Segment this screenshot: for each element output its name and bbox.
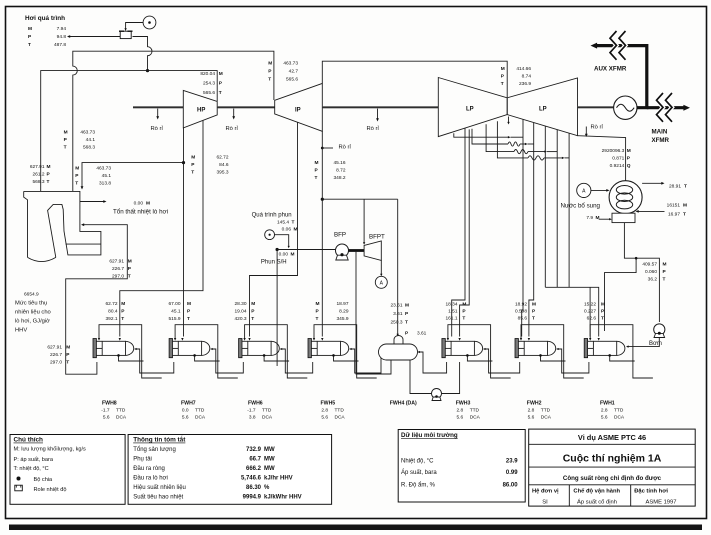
svg-text:45.1: 45.1 bbox=[102, 173, 112, 179]
shaft left stub bbox=[133, 106, 183, 108]
svg-text:2.8: 2.8 bbox=[528, 407, 535, 413]
right LP tap to FWH2 second bbox=[529, 123, 534, 337]
feedwater heater FWH6 bbox=[239, 339, 280, 358]
svg-text:463.73: 463.73 bbox=[96, 166, 111, 172]
boiler heat loss arrow bbox=[80, 201, 105, 203]
svg-text:TTD: TTD bbox=[470, 407, 480, 413]
condenser hotwell box bbox=[612, 213, 635, 222]
BFP coupling shaft bbox=[349, 249, 365, 252]
svg-text:395.3: 395.3 bbox=[216, 170, 228, 176]
svg-text:Hiệu suất nhiên liệu: Hiệu suất nhiên liệu bbox=[133, 485, 186, 491]
svg-text:392.1: 392.1 bbox=[105, 316, 117, 322]
svg-text:820.04: 820.04 bbox=[200, 71, 215, 77]
svg-text:0.060: 0.060 bbox=[645, 269, 657, 275]
drain bracket FWH7 bbox=[175, 325, 238, 378]
deaerator dome bbox=[394, 336, 403, 345]
svg-text:Rò rỉ: Rò rỉ bbox=[339, 143, 352, 150]
thick bus generator to transformers bbox=[596, 46, 647, 108]
main steam line boiler to HP bbox=[41, 71, 218, 192]
svg-text:DCA: DCA bbox=[116, 414, 127, 420]
legend splitter symbol bbox=[17, 477, 21, 481]
condenser cooling water inlet arrow bbox=[638, 210, 665, 212]
values HP inlet bbox=[200, 71, 222, 96]
instrument circle A below BFPT bbox=[375, 276, 387, 288]
condenser cooling water outlet arrow bbox=[642, 182, 662, 184]
condenser coil bbox=[616, 186, 632, 195]
label FWH7 bbox=[181, 400, 206, 420]
svg-text:T: T bbox=[663, 277, 666, 283]
svg-text:28.30: 28.30 bbox=[234, 301, 246, 307]
svg-text:568.3: 568.3 bbox=[32, 179, 44, 185]
svg-text:7.9: 7.9 bbox=[586, 215, 593, 221]
HP turbine bbox=[183, 90, 217, 128]
svg-text:lò hơi, GJ/giờ: lò hơi, GJ/giờ bbox=[15, 319, 50, 325]
svg-text:T: T bbox=[64, 145, 67, 151]
svg-text:M: M bbox=[663, 262, 667, 268]
drain bracket FWH8 bbox=[99, 325, 162, 378]
svg-text:5.6: 5.6 bbox=[601, 414, 608, 420]
svg-text:T: T bbox=[683, 211, 686, 217]
condensate branch to FWH1 shell bbox=[605, 258, 637, 331]
svg-text:M: M bbox=[121, 301, 125, 307]
svg-text:Role nhiệt độ: Role nhiệt độ bbox=[34, 487, 67, 493]
svg-text:Hệ đơn vị: Hệ đơn vị bbox=[532, 489, 559, 495]
svg-text:5.6: 5.6 bbox=[103, 414, 110, 420]
wire IP mid extraction to FWH6 bbox=[250, 122, 298, 336]
svg-text:-1.7: -1.7 bbox=[101, 407, 110, 413]
values main steam at boiler bbox=[30, 164, 51, 185]
label Muc tieu thu nhien lieu bbox=[15, 301, 51, 334]
svg-text:T: T bbox=[75, 181, 78, 187]
svg-text:Nước bổ sung: Nước bổ sung bbox=[561, 202, 601, 209]
svg-text:Vi dụ ASME PTC 46: Vi dụ ASME PTC 46 bbox=[578, 433, 646, 442]
svg-text:Áp suất cổ định: Áp suất cổ định bbox=[577, 498, 617, 505]
node cold reheat tap bbox=[182, 161, 185, 164]
wire valve down to main steam line with hop bbox=[133, 37, 153, 71]
svg-text:SI: SI bbox=[542, 499, 548, 505]
svg-text:16.97: 16.97 bbox=[668, 211, 680, 217]
svg-text:Rò rỉ: Rò rỉ bbox=[591, 124, 604, 131]
wire circle to valve bbox=[126, 23, 144, 31]
svg-text:487.8: 487.8 bbox=[54, 42, 66, 48]
main transformer winding symbol bbox=[657, 93, 664, 122]
svg-text:DCA: DCA bbox=[614, 414, 625, 420]
feedwater heater FWH8 bbox=[93, 339, 134, 358]
svg-text:M: M bbox=[191, 155, 195, 161]
svg-text:565.6: 565.6 bbox=[286, 77, 298, 83]
svg-text:Phụ tải: Phụ tải bbox=[133, 456, 152, 462]
svg-text:Mức tiêu thụ: Mức tiêu thụ bbox=[15, 301, 47, 307]
svg-text:3.61: 3.61 bbox=[393, 311, 403, 317]
svg-text:161.1: 161.1 bbox=[445, 316, 457, 322]
hot reheat line boiler to IP with hop bbox=[73, 51, 274, 191]
svg-text:Công suất ròng chỉ định đo đượ: Công suất ròng chỉ định đo được bbox=[563, 475, 662, 482]
svg-text:5.6: 5.6 bbox=[321, 414, 328, 420]
values FWH7 extraction bbox=[168, 301, 191, 322]
svg-text:T: T bbox=[684, 183, 687, 189]
drain outlet FWH3 bbox=[467, 355, 492, 361]
svg-text:18.92: 18.92 bbox=[515, 302, 527, 308]
svg-text:%: % bbox=[264, 485, 270, 491]
svg-text:Quá trình phun: Quá trình phun bbox=[252, 213, 292, 219]
LP extraction drop B with loop seal bbox=[472, 129, 508, 144]
svg-text:0.871: 0.871 bbox=[612, 156, 624, 162]
svg-text:8.74: 8.74 bbox=[522, 74, 532, 80]
ambient box Du lieu moi truong bbox=[398, 430, 525, 503]
svg-text:42.7: 42.7 bbox=[289, 69, 299, 75]
svg-text:0.0: 0.0 bbox=[182, 407, 189, 413]
svg-text:TTD: TTD bbox=[116, 407, 126, 413]
boiler bottom arc bbox=[28, 257, 56, 261]
svg-text:DCA: DCA bbox=[195, 414, 206, 420]
svg-text:297.0: 297.0 bbox=[50, 360, 62, 366]
steam inlet arrows FWH1 bbox=[589, 338, 591, 341]
svg-text:348.2: 348.2 bbox=[333, 175, 345, 181]
svg-text:BFP: BFP bbox=[334, 231, 346, 238]
summary box Thong tin tom tat bbox=[128, 435, 332, 505]
svg-text:M: M bbox=[47, 164, 51, 170]
svg-text:3.61: 3.61 bbox=[417, 330, 427, 336]
process steam arrow line to left bbox=[69, 36, 120, 38]
svg-text:T: T bbox=[501, 81, 504, 87]
svg-text:IP: IP bbox=[295, 108, 301, 114]
svg-text:15.22: 15.22 bbox=[584, 302, 596, 308]
label FWH2 bbox=[527, 400, 552, 420]
svg-text:P: áp suất, bara: P: áp suất, bara bbox=[14, 457, 54, 463]
svg-text:T: nhiệt độ, °C: T: nhiệt độ, °C bbox=[14, 466, 49, 472]
svg-text:Áp suất, bara: Áp suất, bara bbox=[401, 469, 437, 476]
generator G1 bbox=[614, 96, 637, 119]
svg-text:T: T bbox=[66, 360, 69, 366]
svg-text:kJ/hr HHV: kJ/hr HHV bbox=[264, 475, 293, 481]
svg-text:7.94: 7.94 bbox=[57, 26, 67, 32]
svg-text:M: M bbox=[66, 345, 70, 351]
svg-text:515.9: 515.9 bbox=[168, 316, 180, 322]
values FWH5 extraction bbox=[316, 301, 349, 322]
wire IP exhaust down to FWH5 bbox=[321, 131, 323, 336]
svg-text:Bộ chia: Bộ chia bbox=[34, 477, 54, 483]
values FWH1 extraction bbox=[584, 302, 605, 322]
svg-text:T: T bbox=[47, 179, 50, 185]
svg-text:261.2: 261.2 bbox=[32, 172, 44, 178]
drain bracket FWH5 bbox=[314, 325, 377, 378]
svg-text:DCA: DCA bbox=[262, 414, 273, 420]
feedwater link FWH5 to FWH6 bbox=[280, 349, 312, 373]
deaerator drain to pump bbox=[410, 360, 431, 394]
main transformer arrow bbox=[683, 105, 690, 111]
svg-text:T: T bbox=[191, 170, 194, 176]
feedwater link DA to FWH5 bbox=[350, 349, 381, 373]
svg-text:Tổn thất nhiệt lò hơi: Tổn thất nhiệt lò hơi bbox=[113, 209, 168, 216]
svg-text:62.72: 62.72 bbox=[216, 155, 228, 161]
feedwater heater FWH5 bbox=[308, 339, 349, 358]
svg-text:ASME 1997: ASME 1997 bbox=[646, 499, 677, 505]
process steam M P T values bbox=[28, 26, 66, 48]
feedwater heater FWH7 bbox=[169, 339, 210, 358]
svg-text:M: M bbox=[128, 259, 132, 265]
values HP extraction bbox=[191, 155, 229, 176]
svg-text:Đầu ra lò hơi: Đầu ra lò hơi bbox=[133, 475, 168, 481]
svg-text:86.00: 86.00 bbox=[503, 482, 519, 488]
condensate pump Bom bbox=[654, 324, 665, 335]
svg-text:8.29: 8.29 bbox=[339, 309, 349, 315]
svg-text:M: M bbox=[683, 203, 687, 209]
condenser C1 bbox=[609, 181, 642, 214]
svg-text:Suất tiêu hao nhiệt: Suất tiêu hao nhiệt bbox=[133, 495, 183, 501]
svg-text:TTD: TTD bbox=[614, 407, 624, 413]
svg-text:M: M bbox=[291, 251, 295, 257]
drain bracket FWH6 bbox=[245, 325, 308, 378]
svg-text:0.00: 0.00 bbox=[134, 200, 144, 206]
drain outlet FWH6 bbox=[264, 355, 289, 361]
svg-text:MAIN: MAIN bbox=[652, 129, 668, 136]
svg-text:236.9: 236.9 bbox=[519, 81, 531, 87]
spray water riser bbox=[276, 250, 278, 367]
LP turbine left flow bbox=[438, 78, 507, 137]
values IP inlet bbox=[268, 61, 298, 83]
svg-text:0.06: 0.06 bbox=[282, 226, 292, 232]
BFPT steam supply header bbox=[322, 198, 397, 200]
svg-text:Rò rỉ: Rò rỉ bbox=[151, 125, 164, 132]
svg-text:6654.9: 6654.9 bbox=[24, 292, 39, 298]
svg-text:M: M bbox=[268, 61, 272, 67]
wire HP gland to FWH7 bbox=[183, 128, 185, 337]
BFP suction line from DA bbox=[356, 252, 391, 374]
svg-text:TTD: TTD bbox=[262, 407, 272, 413]
svg-text:LP: LP bbox=[539, 107, 547, 113]
svg-text:18.34: 18.34 bbox=[445, 302, 457, 308]
svg-text:FWH7: FWH7 bbox=[181, 400, 196, 406]
LP turbine right flow bbox=[507, 78, 577, 136]
svg-text:19.04: 19.04 bbox=[234, 309, 246, 315]
feedwater link FWH1 to FWH2 bbox=[557, 349, 589, 373]
svg-text:568.3: 568.3 bbox=[83, 145, 95, 151]
svg-text:kJ/kWhr HHV: kJ/kWhr HHV bbox=[264, 495, 302, 501]
svg-text:409.57: 409.57 bbox=[642, 262, 657, 268]
svg-text:254.3: 254.3 bbox=[203, 81, 215, 87]
svg-text:TTD: TTD bbox=[335, 407, 345, 413]
makeup water line into hotwell bbox=[599, 218, 610, 220]
DA steam drop bbox=[397, 199, 399, 334]
svg-text:T: T bbox=[268, 77, 271, 83]
drain outlet FWH5 bbox=[334, 355, 359, 361]
LP extraction line to FWH3 second bbox=[460, 129, 470, 336]
svg-text:Chú thích: Chú thích bbox=[14, 437, 44, 444]
drain bracket FWH1 bbox=[590, 325, 653, 378]
values condensate bbox=[642, 262, 666, 283]
svg-text:T: T bbox=[251, 316, 254, 322]
svg-text:FWH1: FWH1 bbox=[600, 400, 615, 406]
deaerator FWH4 DA bbox=[379, 344, 418, 360]
svg-text:MW: MW bbox=[264, 456, 275, 462]
leak arrow 3 on shaft bbox=[377, 109, 379, 120]
feedwater heater FWH3 bbox=[442, 339, 483, 358]
leak arrow 2 on shaft bbox=[233, 109, 235, 118]
steam inlet arrows FWH3 bbox=[447, 338, 449, 341]
svg-text:2920096.3: 2920096.3 bbox=[602, 148, 625, 154]
svg-text:M: M bbox=[219, 71, 223, 77]
svg-text:FWH2: FWH2 bbox=[527, 400, 542, 406]
svg-text:145.4: 145.4 bbox=[277, 219, 289, 225]
svg-text:nhiên liệu cho: nhiên liệu cho bbox=[15, 310, 51, 316]
values FWH6 extraction bbox=[234, 301, 255, 322]
values hot reheat bbox=[64, 130, 96, 151]
svg-text:DCA: DCA bbox=[335, 414, 346, 420]
svg-text:M: M bbox=[601, 302, 605, 308]
svg-text:45.16: 45.16 bbox=[333, 160, 345, 166]
svg-text:226.7: 226.7 bbox=[112, 266, 124, 272]
svg-text:R. Độ ẩm, %: R. Độ ẩm, % bbox=[401, 481, 436, 488]
svg-text:HHV: HHV bbox=[15, 328, 27, 334]
boiler feed pump BFP bbox=[336, 244, 349, 257]
values cold reheat bbox=[75, 166, 111, 187]
drain outlet FWH8 bbox=[119, 355, 144, 361]
drain bracket FWH2 bbox=[521, 325, 584, 378]
values LP inlet bbox=[501, 66, 532, 87]
values DA extraction bbox=[390, 303, 409, 326]
svg-text:23.9: 23.9 bbox=[506, 459, 518, 465]
shaft LP to generator bbox=[578, 106, 614, 108]
svg-text:23.61: 23.61 bbox=[390, 303, 402, 309]
shaft IP to LP bbox=[322, 106, 438, 108]
svg-text:627.91: 627.91 bbox=[109, 259, 124, 265]
label FWH6 bbox=[247, 400, 273, 420]
svg-text:Phun S/H: Phun S/H bbox=[261, 260, 287, 266]
svg-text:XFMR: XFMR bbox=[652, 137, 670, 144]
feedwater link FWH7 to FWH8 bbox=[135, 349, 174, 373]
leak arrow at LP center bbox=[508, 117, 510, 123]
svg-text:2.8: 2.8 bbox=[601, 407, 608, 413]
title block table bbox=[529, 429, 696, 506]
svg-text:M: M bbox=[187, 301, 191, 307]
steam inlet arrows FWH6 bbox=[243, 338, 245, 341]
right LP tap to FWH2 first bbox=[522, 119, 523, 336]
svg-text:463.73: 463.73 bbox=[283, 61, 298, 67]
BFPT inlet drop bbox=[363, 199, 365, 243]
svg-text:M: M bbox=[146, 200, 150, 206]
svg-text:5.6: 5.6 bbox=[182, 414, 189, 420]
svg-text:Dữ liệu môi trường: Dữ liệu môi trường bbox=[401, 432, 458, 439]
svg-text:AUX XFMR: AUX XFMR bbox=[594, 66, 627, 73]
svg-text:86.30: 86.30 bbox=[246, 485, 262, 491]
svg-text:Đầu ra ròng: Đầu ra ròng bbox=[133, 466, 165, 472]
svg-text:T: T bbox=[292, 219, 295, 225]
svg-text:M: M bbox=[627, 148, 631, 154]
svg-text:9994.9: 9994.9 bbox=[243, 495, 262, 501]
svg-text:LP: LP bbox=[466, 107, 474, 113]
svg-text:463.73: 463.73 bbox=[80, 130, 95, 136]
svg-text:M: M bbox=[462, 302, 466, 308]
svg-text:1.51: 1.51 bbox=[448, 309, 458, 315]
svg-text:Tổng sản lượng: Tổng sản lượng bbox=[133, 446, 176, 453]
svg-text:M: M bbox=[75, 166, 79, 172]
svg-text:FWH5: FWH5 bbox=[321, 400, 336, 406]
loop seal 3 bbox=[528, 156, 544, 160]
svg-text:M: M bbox=[28, 26, 32, 32]
label FWH3 bbox=[456, 400, 481, 420]
values FWH8 extraction bbox=[105, 301, 125, 322]
svg-text:0.9214: 0.9214 bbox=[610, 163, 625, 169]
feedwater line into boiler economizer bbox=[66, 225, 128, 375]
svg-text:420.3: 420.3 bbox=[234, 316, 246, 322]
svg-text:16151: 16151 bbox=[667, 203, 681, 209]
feedwater link FWH3 to DA bbox=[418, 352, 447, 373]
svg-text:2.8: 2.8 bbox=[457, 407, 464, 413]
svg-text:313.8: 313.8 bbox=[99, 181, 111, 187]
temperature relay valve symbol bbox=[119, 31, 133, 38]
aux transformer winding symbol bbox=[610, 31, 617, 60]
right LP tap to FWH1 header bbox=[556, 130, 558, 288]
node main steam junction bbox=[146, 69, 149, 72]
svg-text:414.66: 414.66 bbox=[516, 66, 531, 72]
values FWH2 extraction bbox=[515, 302, 536, 322]
svg-text:Rò rỉ: Rò rỉ bbox=[226, 125, 239, 132]
steam inlet arrows FWH5 bbox=[313, 338, 315, 341]
svg-text:345.9: 345.9 bbox=[336, 316, 348, 322]
svg-text:T: T bbox=[187, 316, 190, 322]
feedwater heater FWH2 bbox=[515, 339, 556, 358]
svg-text:250.3: 250.3 bbox=[390, 320, 402, 326]
spray takeoff junction and line to BFP bbox=[276, 248, 279, 251]
values boiler feed riser bbox=[109, 259, 131, 280]
svg-text:DCA: DCA bbox=[541, 414, 552, 420]
svg-text:Đặc tính hơi: Đặc tính hơi bbox=[634, 489, 668, 495]
steam inlet arrows FWH2 bbox=[520, 338, 522, 341]
svg-text:TTD: TTD bbox=[195, 407, 205, 413]
makeup water instrument circle A bbox=[577, 183, 591, 197]
svg-text:Hơi quá trình: Hơi quá trình bbox=[25, 15, 65, 22]
svg-text:FWH4 (DA): FWH4 (DA) bbox=[390, 400, 417, 406]
values condenser inlet bbox=[602, 148, 631, 169]
FWH1 extraction header bbox=[545, 287, 598, 336]
steam inlet arrows FWH7 bbox=[174, 338, 176, 341]
svg-text:T: T bbox=[462, 316, 465, 322]
svg-text:Cuộc thí nghiệm 1A: Cuộc thí nghiệm 1A bbox=[563, 453, 662, 465]
svg-text:8.72: 8.72 bbox=[336, 168, 346, 174]
LP extraction drop C with loop seal bbox=[486, 124, 514, 151]
values feedwater from FWH8 bbox=[47, 345, 70, 366]
svg-text:T: T bbox=[28, 42, 31, 48]
wire HP extraction down bbox=[120, 121, 203, 337]
pump to FWH3 line bbox=[442, 362, 460, 394]
LP extraction drop A to FWH2 bbox=[454, 133, 509, 137]
leak arrow 5 at condenser neck bbox=[585, 127, 587, 136]
LP exhaust to condenser bbox=[578, 136, 626, 181]
svg-text:67.00: 67.00 bbox=[168, 301, 180, 307]
drain bracket FWH3 bbox=[448, 325, 511, 378]
leak arrow 1 on shaft bbox=[157, 109, 159, 118]
svg-text:565.6: 565.6 bbox=[203, 90, 215, 96]
BFPT exhaust to instrument A bbox=[380, 260, 382, 274]
svg-text:M: M bbox=[532, 302, 536, 308]
svg-text:T: T bbox=[532, 316, 535, 322]
LP extraction drop D with loop seal bbox=[497, 121, 528, 158]
svg-text:M: M bbox=[405, 303, 409, 309]
svg-text:M: M bbox=[64, 130, 68, 136]
svg-text:Rò rỉ: Rò rỉ bbox=[367, 125, 380, 132]
aux transformer arrow bbox=[591, 43, 598, 49]
svg-text:94.8: 94.8 bbox=[57, 34, 67, 40]
svg-text:DCA: DCA bbox=[470, 414, 481, 420]
label FWH5 bbox=[321, 400, 346, 420]
svg-text:62.6: 62.6 bbox=[587, 316, 597, 322]
svg-text:0.598: 0.598 bbox=[515, 309, 527, 315]
svg-text:66.7: 66.7 bbox=[249, 456, 261, 462]
legend relay symbol bbox=[15, 485, 22, 491]
svg-text:M: lưu lượng khốilượng, kg/s: M: lưu lượng khốilượng, kg/s bbox=[14, 447, 87, 453]
condensate line hotwell to pump bbox=[624, 223, 659, 322]
pump discharge to FWH1 bbox=[628, 338, 660, 347]
